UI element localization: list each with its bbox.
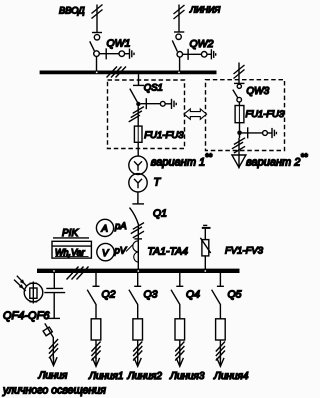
wire Q1 to CT xyxy=(134,226,142,270)
svg-text:ЛИНИЯ: ЛИНИЯ xyxy=(189,5,220,15)
svg-text:Q2: Q2 xyxy=(102,289,116,301)
svg-text:Q3: Q3 xyxy=(144,289,158,301)
svg-text:Q4: Q4 xyxy=(186,289,200,301)
busbar upper xyxy=(40,71,217,75)
wire mark on lower bus xyxy=(67,267,89,280)
ground QW2 branch xyxy=(211,49,215,59)
QF4-QF6 label xyxy=(3,310,50,322)
svg-text:QS1: QS1 xyxy=(144,83,163,94)
wire QS1 to fuse xyxy=(137,106,139,126)
Q4 label xyxy=(186,289,200,301)
variant 2 dashed box xyxy=(206,80,285,151)
wire feeder Q4 outgoing xyxy=(175,340,184,361)
street lighting contact xyxy=(44,273,65,318)
svg-text:QW1: QW1 xyxy=(107,38,131,50)
svg-text:Линия4: Линия4 xyxy=(213,371,249,382)
meter box Wh Var xyxy=(52,241,91,258)
wire mark below Q1 xyxy=(131,223,144,238)
svg-text:TA1-TA4: TA1-TA4 xyxy=(148,246,189,258)
arrow feeder Q5 xyxy=(217,357,224,366)
FU1-FU3 label variant 1 xyxy=(144,130,184,141)
switch QW3 xyxy=(233,83,245,102)
wire QW2 earthing branch xyxy=(183,49,212,60)
svg-text:вариант 2: вариант 2 xyxy=(246,157,300,169)
svg-text:T: T xyxy=(154,177,162,189)
feeder Q4 xyxy=(171,273,183,319)
ground QW1 branch xyxy=(130,49,135,59)
line 2 label xyxy=(127,371,163,382)
fuse FU1-FU3 variant 2 xyxy=(235,102,244,123)
line 3 label xyxy=(169,371,205,382)
switch QW2 xyxy=(172,32,184,71)
ammeter pA xyxy=(96,219,113,236)
node ЛИНИЯ label xyxy=(189,5,220,15)
wire mark on upper bus xyxy=(107,67,127,78)
svg-text:FV1-FV3: FV1-FV3 xyxy=(225,246,264,257)
svg-text:QW2: QW2 xyxy=(190,38,214,50)
svg-text:Q5: Q5 xyxy=(228,289,242,301)
wire fuse to node variant 2 xyxy=(239,123,241,138)
wire fuse to transformer xyxy=(137,142,139,156)
pV label xyxy=(114,246,128,257)
QS1 label xyxy=(144,83,163,94)
svg-text:pV: pV xyxy=(114,246,128,257)
variant 2 label xyxy=(246,152,308,169)
wire QW3 earthing branch xyxy=(242,127,272,138)
ground QW3 branch xyxy=(272,128,276,138)
wire mark below QS1 node xyxy=(129,107,144,122)
wire incoming feed VVOD xyxy=(92,5,103,33)
street lighting line label xyxy=(2,371,106,397)
switch QW1 xyxy=(90,33,102,71)
wire transformer to Q1 xyxy=(137,192,139,204)
wire street lighting outgoing xyxy=(49,337,58,359)
arrow street lighting xyxy=(50,357,57,366)
svg-text:QF4-QF6: QF4-QF6 xyxy=(3,310,50,322)
arrow feeder Q3 xyxy=(134,357,141,366)
wire variant 2 outgoing xyxy=(238,138,240,169)
line 1 label xyxy=(88,371,123,382)
junction LINIYA on bus xyxy=(178,72,180,74)
breaker Q1 xyxy=(130,204,145,226)
svg-text:Линия3: Линия3 xyxy=(169,371,205,382)
transformer T xyxy=(129,156,147,192)
svg-text:Wh,Var: Wh,Var xyxy=(55,248,86,258)
interchange arrow between variants xyxy=(184,109,207,119)
fuse FU1-FU3 variant 1 xyxy=(134,126,142,142)
ground QS1 branch xyxy=(172,99,177,109)
Q1 label xyxy=(153,208,167,220)
feeder Q2 xyxy=(87,273,99,319)
svg-text:FU1-FU3: FU1-FU3 xyxy=(246,108,285,119)
disconnector QS1 xyxy=(130,74,144,103)
wire incoming feed LINIYA xyxy=(174,5,185,33)
junction VVOD on bus xyxy=(96,72,98,74)
junction main on lower bus xyxy=(137,270,139,272)
leader line pV to line xyxy=(126,245,133,252)
Q5 label xyxy=(228,289,242,301)
QW3 label xyxy=(246,86,269,97)
svg-text:**: ** xyxy=(205,152,213,162)
wire feeder Q2 outgoing xyxy=(91,340,100,361)
arrow feeder Q4 xyxy=(176,357,183,366)
line 4 label xyxy=(213,371,249,382)
svg-text:Линия2: Линия2 xyxy=(127,371,163,382)
fuse feeder Q4 xyxy=(175,319,185,340)
Q3 label xyxy=(144,289,158,301)
Q2 label xyxy=(102,289,116,301)
pA label xyxy=(114,221,127,232)
surge arrester FV1-FV3 xyxy=(200,225,210,269)
svg-text:V: V xyxy=(102,248,110,259)
node ВВОД label xyxy=(59,6,85,16)
FU1-FU3 label variant 2 xyxy=(246,108,285,119)
variant 1 dashed box xyxy=(108,80,185,149)
QW2 label xyxy=(190,38,214,50)
arrow feeder Q2 xyxy=(92,357,99,366)
fuse feeder Q2 xyxy=(91,319,101,340)
photocell sensor xyxy=(24,282,43,304)
svg-text:Линия: Линия xyxy=(38,371,68,382)
TA1-TA4 label xyxy=(148,246,189,258)
svg-text:Линия1: Линия1 xyxy=(88,371,123,382)
wire incoming variant 2 xyxy=(234,63,245,84)
T label xyxy=(154,177,162,189)
feeder Q3 xyxy=(129,273,141,319)
photocell arrows xyxy=(14,276,26,291)
junction FV on lower bus xyxy=(204,270,206,272)
svg-text:pA: pA xyxy=(114,221,127,232)
svg-text:A: A xyxy=(101,224,108,235)
svg-text:QW3: QW3 xyxy=(246,86,269,97)
svg-text:уличного освещения: уличного освещения xyxy=(2,385,106,397)
junction node below fuse variant 2 xyxy=(237,131,242,136)
FV1-FV3 label xyxy=(225,246,264,257)
arrow variant 2 outgoing xyxy=(232,155,246,167)
wire feeder Q3 outgoing xyxy=(133,340,142,361)
voltmeter pV xyxy=(97,243,114,260)
QW1 label xyxy=(107,38,131,50)
wire QW1 earthing branch xyxy=(99,48,129,59)
junction node below QS1 xyxy=(136,102,140,106)
junction street light on lower bus xyxy=(53,270,55,272)
feeder Q5 xyxy=(212,273,224,319)
svg-text:FU1-FU3: FU1-FU3 xyxy=(144,130,184,141)
wire feeder Q5 outgoing xyxy=(216,340,225,361)
busbar lower xyxy=(37,269,240,273)
fuse feeder Q5 xyxy=(216,319,226,340)
PIK label xyxy=(53,228,89,239)
fuse feeder Q3 xyxy=(133,319,143,340)
wire mark below variant 2 node xyxy=(232,138,245,153)
svg-text:ВВОД: ВВОД xyxy=(59,6,85,16)
variant 1 label xyxy=(151,152,213,169)
svg-text:**: ** xyxy=(301,152,309,162)
svg-text:Q1: Q1 xyxy=(153,208,167,220)
current transformer TA1-TA4 xyxy=(133,241,139,262)
breaker QF4-QF6 xyxy=(43,323,53,337)
wire QS1 earthing branch xyxy=(141,98,172,109)
svg-text:вариант 1: вариант 1 xyxy=(151,157,205,169)
